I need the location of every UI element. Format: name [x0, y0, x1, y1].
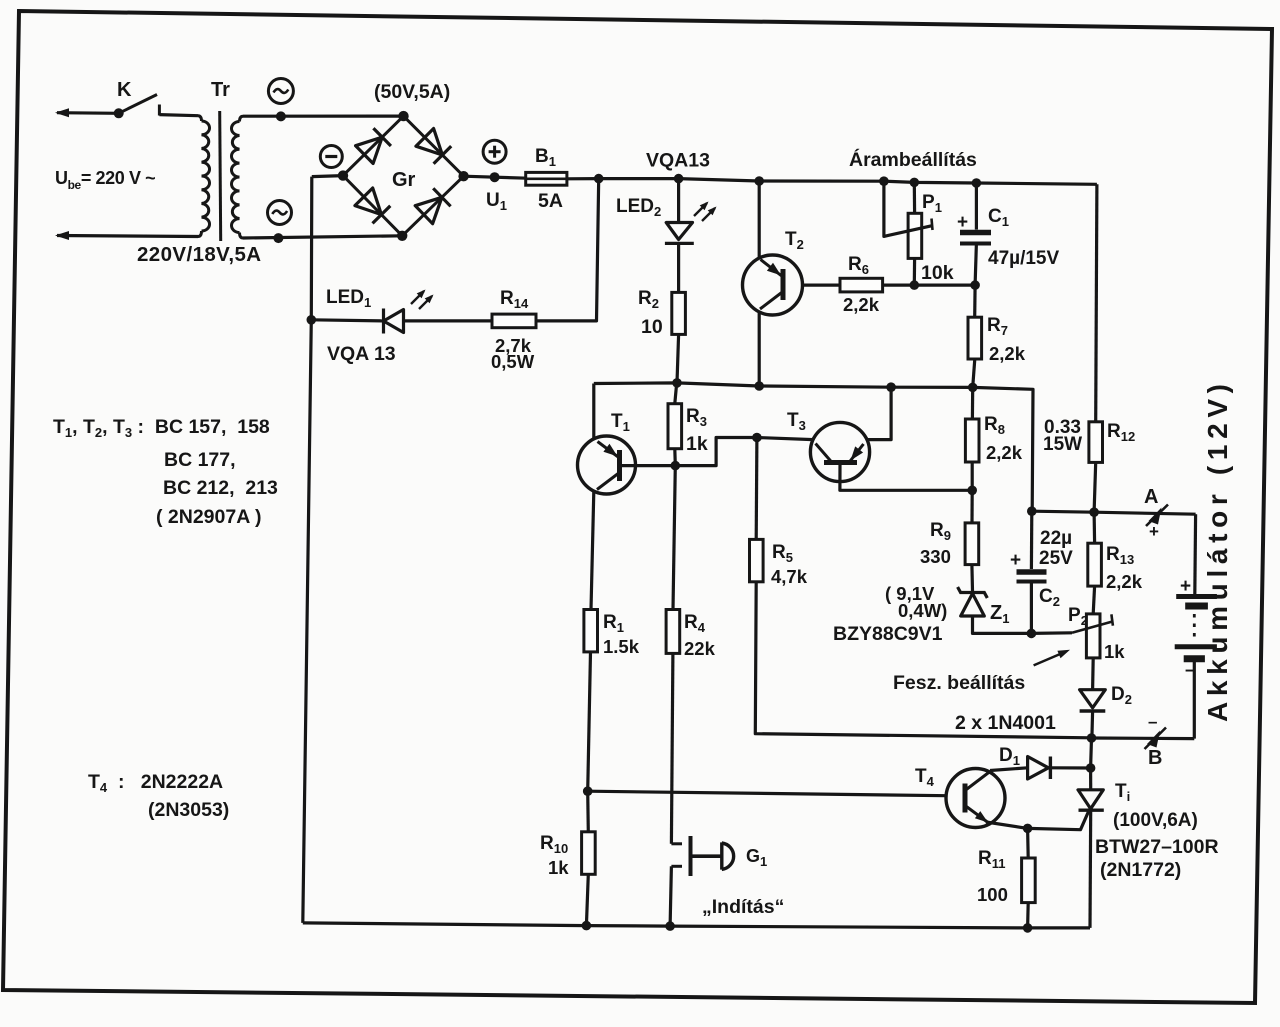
svg-text:1.5k: 1.5k [603, 636, 640, 657]
wire junction to R9 [970, 490, 973, 523]
transistor T4 base bar [963, 784, 968, 813]
svg-text:2,2k: 2,2k [1106, 571, 1143, 592]
capacitor C2 bottom plate [1017, 580, 1047, 584]
wire bottom bus [303, 923, 1090, 928]
LED1 diode [384, 310, 404, 333]
wire rail to LED2 [677, 179, 680, 223]
battery bottom long plate [1175, 644, 1217, 649]
resistor R10 [582, 832, 596, 875]
wire C1 node to R7 [973, 285, 977, 317]
P2 wiper [1072, 621, 1113, 632]
node A line R13 [1089, 507, 1099, 517]
node bridge left [338, 170, 348, 180]
svg-text:4,7k: 4,7k [771, 566, 808, 587]
battery dotted middle [1193, 614, 1196, 641]
svg-text:(2N3053): (2N3053) [148, 799, 229, 821]
wire C2 node to P2 wiper [1031, 631, 1072, 635]
wire secondary bottom to bridge [243, 236, 402, 238]
node AC top [276, 111, 286, 121]
wire T4 collector to D1 [990, 768, 1028, 771]
svg-text:A: A [1144, 486, 1158, 508]
terminal B clip [1145, 728, 1167, 750]
svg-text:2,2k: 2,2k [843, 294, 880, 315]
svg-text:+: + [1149, 522, 1159, 541]
bridge Gr diamond frame [343, 116, 464, 236]
svg-text:BTW27–100R: BTW27–100R [1095, 836, 1219, 858]
resistor R2 [672, 292, 686, 334]
wire A line to battery [1193, 514, 1197, 596]
wire R9 to Z1 [970, 565, 974, 591]
svg-text:10: 10 [641, 316, 663, 338]
svg-text:+: + [1180, 576, 1191, 597]
wire R10 to bus [586, 874, 588, 925]
resistor R7 [968, 317, 982, 359]
wire R13 to P2 [1093, 586, 1094, 614]
wire R11 to bus [1026, 903, 1030, 928]
wire rail to P1 [913, 182, 916, 213]
wire bridge right to fuse [464, 176, 527, 178]
wire rail to C1 [975, 183, 978, 230]
node bridge right [458, 171, 468, 181]
battery top long plate [1176, 594, 1217, 599]
transistor T2 emitter [761, 260, 784, 278]
Fesz arrow [1034, 652, 1066, 666]
wire left rail vertical [303, 177, 312, 923]
svg-text:25V: 25V [1039, 548, 1073, 569]
minus symbol circle [320, 146, 342, 168]
svg-text:BC 212, 213: BC 212, 213 [163, 477, 278, 499]
wire Ti cathode to bus [1088, 810, 1092, 928]
zener Z1 bar [958, 587, 988, 598]
wire P2 to D2 [1091, 658, 1095, 690]
wire Z1 to C2 node [973, 616, 1032, 633]
P1 wiper wire [884, 181, 932, 236]
wire base node to R4 [673, 466, 675, 610]
node U1 [490, 172, 500, 182]
wire B node to D1 node [1089, 738, 1093, 768]
wire middle bus [594, 383, 1033, 511]
svg-text:(100V,6A): (100V,6A) [1113, 810, 1198, 831]
wire R10 node to T4 base [588, 791, 946, 796]
svg-text:VQA13: VQA13 [646, 150, 710, 172]
wire R6 to P1 node [883, 284, 915, 287]
resistor R11 [1022, 858, 1036, 903]
wire R2 to bus [677, 334, 679, 383]
wire bus to R3 [675, 383, 677, 404]
wire B line [1092, 736, 1195, 740]
node bus T2 [754, 381, 764, 391]
AC symbol top circle [268, 79, 293, 104]
svg-text:2,2k: 2,2k [989, 343, 1026, 364]
svg-text:2,2k: 2,2k [986, 442, 1023, 463]
transistor T1 circle [578, 436, 636, 494]
resistor R6 [840, 278, 883, 292]
node switch pivot [114, 108, 124, 118]
node top rail P1 [910, 178, 920, 188]
wire R3 to base node [673, 449, 677, 466]
wire R14 to up rail [536, 179, 599, 321]
transformer Tr primary winding [198, 116, 202, 121]
transistor T2 circle [743, 255, 803, 315]
wire C1 to node [975, 244, 976, 286]
wire T3 emitter to bus [867, 387, 891, 439]
switch G1 upper contact [671, 842, 682, 845]
svg-text:Gr: Gr [392, 169, 416, 191]
wire D1 to rail [1051, 766, 1090, 769]
svg-text:100: 100 [977, 884, 1008, 905]
wire A line [1032, 511, 1195, 514]
transistor T2 collector [760, 292, 783, 310]
capacitor C1 bottom plate [960, 242, 991, 246]
svg-text:VQA 13: VQA 13 [327, 343, 396, 365]
node T1 base R3 [671, 461, 681, 471]
node bus R8 [968, 383, 978, 393]
wire mains bottom lead [57, 236, 198, 237]
LED2 diode [666, 223, 692, 240]
wire center node to R5 [755, 438, 759, 540]
node top rail LED2 [674, 174, 684, 184]
transistor T4 collector [965, 772, 990, 791]
transistor T2 base bar [781, 269, 786, 300]
node LED1 left rail [307, 315, 317, 325]
transistor T3 emitter [849, 444, 864, 463]
node D1 rail [1086, 763, 1096, 773]
resistor R9 [965, 523, 979, 565]
wire battery to B line [1193, 662, 1196, 739]
node R11 bottom [1023, 923, 1033, 933]
thyristor Ti gate [1028, 812, 1089, 830]
resistor R4 [666, 610, 680, 654]
svg-text:47µ/15V: 47µ/15V [988, 248, 1059, 269]
node top rail P1 wiper [879, 176, 889, 186]
svg-text:Tr: Tr [211, 79, 230, 101]
wire fuse to rail [567, 177, 599, 180]
node bridge bottom [397, 231, 407, 241]
node R10 bottom [582, 921, 592, 931]
wire A line to C2 [1030, 511, 1034, 569]
capacitor C1 top plate [960, 230, 991, 236]
wire A node to R13 [1092, 512, 1096, 543]
terminal A clip [1146, 505, 1168, 527]
wire R7 to bus [973, 359, 975, 387]
potentiometer P1 body [908, 213, 922, 258]
svg-text:T1, T2, T3 : BC 157, 158: T1, T2, T3 : BC 157, 158 [53, 416, 270, 440]
wire G1 to bottom bus [670, 866, 671, 926]
wire rail to T2 [758, 181, 761, 258]
node top rail C1 [972, 178, 982, 188]
diode D2 [1080, 690, 1106, 708]
AC symbol bottom circle [268, 201, 292, 225]
wire T4 emitter to R11 node [986, 822, 1028, 828]
svg-text:Akkumulátor (12V): Akkumulátor (12V) [1202, 384, 1233, 722]
node P1 bottom [910, 280, 920, 290]
node R8 R9 junction [967, 486, 977, 496]
svg-text:( 2N2907A ): ( 2N2907A ) [156, 506, 262, 528]
svg-text:T4 : 2N2222A: T4 : 2N2222A [88, 771, 223, 795]
wire R10 top [586, 791, 590, 832]
switch G1 lower contact [671, 865, 682, 868]
resistor R12 0.33 15W [1089, 422, 1103, 463]
wire P1 to node [913, 258, 916, 285]
transistor T3 collector [816, 444, 833, 463]
wire bus to R8 [971, 387, 974, 419]
svg-text:BZY88C9V1: BZY88C9V1 [833, 623, 943, 645]
arrow mains bottom [55, 231, 69, 240]
svg-text:0,5W: 0,5W [491, 351, 535, 372]
svg-text:1k: 1k [1104, 641, 1125, 662]
wire rail down to R12 [1096, 184, 1097, 421]
wire T2 base to R6 [802, 284, 840, 287]
transformer Tr secondary winding [240, 116, 244, 121]
wire T3 base down [840, 465, 972, 490]
potentiometer P2 body [1086, 614, 1100, 658]
transistor T1 emitter [598, 442, 620, 459]
transformer Tr core [220, 111, 221, 241]
svg-text:1k: 1k [686, 433, 708, 455]
node bridge top [398, 111, 408, 121]
svg-text:+: + [1010, 550, 1021, 571]
transistor T3 base bar [824, 460, 857, 465]
svg-text:22k: 22k [684, 638, 716, 659]
node B line [1087, 733, 1097, 743]
wire top positive rail [599, 179, 1097, 185]
bridge diode top-left [356, 137, 383, 163]
switch G1 actuator bar [689, 836, 693, 876]
svg-text:1k: 1k [548, 857, 569, 878]
plus symbol circle [483, 140, 506, 163]
node top rail fuse side [594, 174, 604, 184]
wire R4 to G1 [671, 653, 673, 843]
capacitor C2 top plate [1017, 569, 1047, 575]
transistor T1 collector [597, 473, 620, 490]
resistor R5 [750, 539, 764, 581]
resistor R13 [1088, 543, 1102, 586]
wire minus node to left rail [312, 176, 343, 177]
svg-text:K: K [117, 79, 132, 101]
LED2 emission arrows [694, 203, 707, 216]
node bus T3 [886, 382, 896, 392]
wire switch to transformer [159, 115, 198, 116]
svg-text:5A: 5A [538, 190, 563, 212]
node R11 top [1023, 824, 1033, 834]
switch K contact [158, 105, 161, 116]
svg-text:Fesz. beállítás: Fesz. beállítás [893, 672, 1025, 694]
thyristor Ti cathode bar [1079, 809, 1104, 812]
bridge diode bottom-right [415, 197, 442, 223]
svg-text:2 x 1N4001: 2 x 1N4001 [955, 712, 1056, 734]
resistor R8 [965, 419, 979, 462]
node R10 top [583, 786, 593, 796]
svg-text:15W: 15W [1043, 434, 1082, 455]
wire secondary top to bridge [243, 114, 404, 117]
resistor R3 [668, 404, 682, 449]
transistor T4 circle [946, 769, 1005, 828]
thyristor Ti triangle [1078, 790, 1103, 809]
svg-text:B: B [1148, 747, 1162, 769]
bridge diode top-right [416, 129, 443, 156]
svg-text:22µ: 22µ [1040, 528, 1072, 549]
resistor R1 [584, 610, 598, 652]
switch K blade [119, 95, 157, 114]
transistor T1 base bar [617, 450, 622, 481]
wire LED2 to R2 [677, 243, 680, 292]
wire T1 to R1 [591, 492, 594, 610]
wire D2 to B node [1090, 711, 1094, 738]
svg-text:„Indítás“: „Indítás“ [702, 896, 784, 918]
arrow mains top [55, 108, 69, 117]
svg-text:0,4W): 0,4W) [898, 600, 947, 621]
battery bottom short plate [1184, 655, 1205, 662]
diode D1 [1028, 757, 1049, 780]
svg-text:Árambeállítás: Árambeállítás [849, 148, 977, 171]
wire mains top lead [57, 111, 119, 115]
node AC bottom [273, 233, 283, 243]
wire center node to T3 [757, 438, 813, 440]
svg-text:–: – [1148, 712, 1157, 731]
resistor R14 [492, 314, 536, 328]
svg-text:(50V,5A): (50V,5A) [374, 81, 450, 103]
transistor T3 circle [810, 422, 869, 481]
wire T2 to bus [758, 312, 761, 387]
svg-text:BC 177,: BC 177, [164, 449, 236, 471]
node C2 top [1027, 506, 1037, 516]
wire T1 base [620, 438, 757, 466]
svg-text:(2N1772): (2N1772) [1100, 859, 1181, 881]
node C2 bottom [1027, 629, 1037, 639]
transistor T4 emitter [965, 806, 988, 823]
node bus R3 [672, 378, 682, 388]
wire R12 to A line [1094, 462, 1096, 512]
wire rail to LED1 [311, 320, 383, 321]
zener Z1 triangle [961, 594, 985, 617]
LED1 emission arrows [411, 291, 424, 304]
wire R1 to R10 node [588, 652, 591, 791]
fuse B1 body [526, 172, 567, 185]
svg-text:330: 330 [920, 546, 951, 567]
switch G1 shaft [693, 854, 722, 858]
wire R5 down and right to diode rail [755, 582, 1091, 738]
switch G1 button head [722, 842, 734, 869]
node C1 bottom [970, 280, 980, 290]
battery top short plate [1185, 603, 1208, 610]
svg-text:10k: 10k [921, 262, 954, 284]
node G1 bottom [665, 921, 675, 931]
wire P1 node to C1 node [914, 284, 975, 287]
wire C2 to node [1030, 582, 1033, 634]
node top rail T2 [754, 176, 764, 186]
wire Ti anode [1089, 768, 1092, 789]
wire bus to T1 [592, 384, 595, 440]
wire LED1 to R14 [404, 319, 493, 322]
resistor R11 wire top [1026, 828, 1030, 858]
svg-text:220V/18V,5A: 220V/18V,5A [137, 243, 261, 266]
bridge diode bottom-left [355, 188, 382, 215]
wire R8 to junction [971, 462, 974, 490]
node center junction [752, 433, 762, 443]
